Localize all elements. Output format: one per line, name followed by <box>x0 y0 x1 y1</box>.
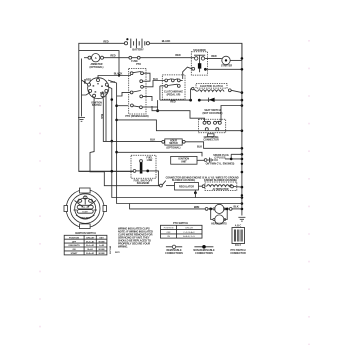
svg-text:A B C: A B C <box>235 225 242 228</box>
svg-text:BLK: BLK <box>233 205 238 209</box>
svg-text:(2 PLUGS: (2 PLUGS <box>214 157 225 160</box>
svg-text:METER: METER <box>169 142 178 145</box>
svg-text:BLK: BLK <box>197 144 202 148</box>
svg-text:RED: RED <box>110 54 115 58</box>
svg-text:POSITION: POSITION <box>69 237 79 239</box>
svg-text:CIRCUIT: CIRCUIT <box>185 228 194 230</box>
svg-text:B+L+A1: B+L+A1 <box>86 244 95 247</box>
svg-text:ON TWIN CYL. ENGINES): ON TWIN CYL. ENGINES) <box>206 162 235 165</box>
svg-text:SWITCH: SWITCH <box>92 104 102 107</box>
svg-text:HEADLIGHTS: HEADLIGHTS <box>211 223 227 226</box>
svg-text:BLACK: BLACK <box>114 72 123 76</box>
svg-text:(PEDAL UP): (PEDAL UP) <box>167 93 181 96</box>
svg-text:KEY: KEY <box>99 237 104 239</box>
svg-text:L+A2: L+A2 <box>99 244 105 247</box>
svg-text:(OPTIONAL): (OPTIONAL) <box>167 147 181 150</box>
svg-text:START: START <box>71 252 79 255</box>
svg-text:IGNITION SWITCH: IGNITION SWITCH <box>75 232 96 235</box>
svg-text:SOLENOID: SOLENOID <box>137 182 150 185</box>
svg-text:BLK: BLK <box>100 92 105 95</box>
svg-text:OFF ON: OFF ON <box>82 207 90 209</box>
svg-text:BRN: BRN <box>194 205 200 209</box>
svg-text:(UNDER BLOWER HOUSING): (UNDER BLOWER HOUSING) <box>204 179 237 182</box>
svg-text:BLK: BLK <box>153 78 158 81</box>
svg-text:B+A1: B+A1 <box>88 248 94 251</box>
svg-text:BLACK: BLACK <box>162 39 171 43</box>
svg-text:NONE: NONE <box>99 241 106 243</box>
svg-text:RED: RED <box>170 100 175 104</box>
svg-text:WIRING.: WIRING. <box>118 245 128 249</box>
svg-text:CIRCUIT: CIRCUIT <box>86 237 95 239</box>
svg-text:START: START <box>82 211 89 214</box>
svg-text:A1: A1 <box>84 195 86 198</box>
svg-text:PTO SWITCH: PTO SWITCH <box>173 222 188 225</box>
svg-text:A+B+E, F+G: A+B+E, F+G <box>183 235 195 238</box>
svg-text:OFF: OFF <box>72 241 77 243</box>
svg-text:PTO: PTO <box>136 63 141 66</box>
svg-text:ALTERNATOR: ALTERNATOR <box>212 188 228 191</box>
svg-text:B S A2: B S A2 <box>82 216 88 219</box>
svg-text:REGULATOR: REGULATOR <box>179 186 194 189</box>
svg-text:CONNECTOR: CONNECTOR <box>230 252 246 255</box>
svg-text:NONE: NONE <box>99 253 106 255</box>
svg-text:ELECTRIC CLUTCH: ELECTRIC CLUTCH <box>200 85 223 88</box>
svg-text:UNIT: UNIT <box>181 160 187 163</box>
svg-text:CONNECTOR: CONNECTOR <box>203 139 219 142</box>
svg-text:ON/LIGHTS: ON/LIGHTS <box>68 245 80 247</box>
svg-text:5372240: 5372240 <box>109 245 112 254</box>
svg-text:ON: ON <box>72 249 76 251</box>
svg-text:NONE: NONE <box>99 249 106 251</box>
svg-text:(NOT OCCUPIED): (NOT OCCUPIED) <box>203 112 223 115</box>
svg-text:RED: RED <box>86 79 91 82</box>
svg-text:BLOWER HOUSING): BLOWER HOUSING) <box>172 179 195 182</box>
svg-text:POSITION: POSITION <box>164 228 174 230</box>
svg-text:BLK: BLK <box>150 138 155 142</box>
svg-text:D E F: D E F <box>235 244 242 247</box>
svg-text:STARTER: STARTER <box>221 65 232 68</box>
svg-text:C+D, B+A+F: C+D, B+A+F <box>183 231 195 234</box>
svg-text:SOLENOID: SOLENOID <box>193 49 206 52</box>
svg-text:RED: RED <box>103 39 108 43</box>
svg-text:A: A <box>95 56 97 60</box>
svg-text:BLK: BLK <box>100 114 103 119</box>
svg-text:M+G+A1: M+G+A1 <box>86 240 95 243</box>
svg-text:CONNECTIONS: CONNECTIONS <box>165 252 183 255</box>
svg-text:RED: RED <box>175 53 180 57</box>
svg-text:PTO (DISENGAGED): PTO (DISENGAGED) <box>125 115 148 118</box>
svg-text:CONNECTIONS: CONNECTIONS <box>195 252 213 255</box>
svg-text:B+S+A1: B+S+A1 <box>86 252 95 255</box>
svg-text:LINE: LINE <box>147 159 153 162</box>
svg-text:BATTERY: BATTERY <box>132 48 144 52</box>
svg-text:(OPTIONAL): (OPTIONAL) <box>90 66 104 69</box>
svg-text:RED: RED <box>211 54 216 58</box>
